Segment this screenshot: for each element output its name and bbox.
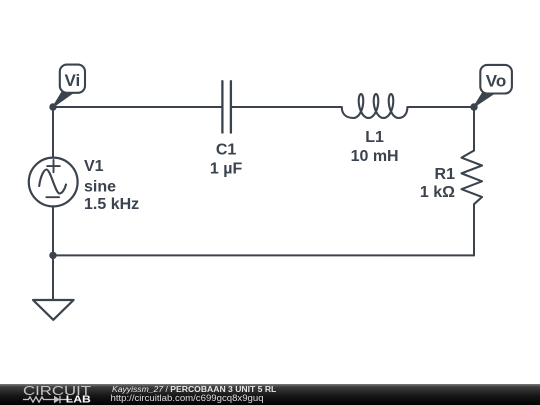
footer bar bbox=[0, 384, 540, 405]
svg-text:V1: V1 bbox=[84, 158, 104, 175]
svg-text:sine: sine bbox=[84, 178, 116, 195]
svg-text:C1: C1 bbox=[216, 142, 237, 159]
voltage source V1 circle bbox=[29, 158, 78, 207]
node Vo junction dot bbox=[470, 103, 477, 110]
wire from resistor R1 to bottom rail corner bbox=[473, 204, 475, 255]
svg-text:1 µF: 1 µF bbox=[210, 160, 243, 177]
wire from bottom node down to ground bbox=[52, 255, 54, 300]
CircuitLab logo bbox=[20, 383, 100, 405]
svg-text:R1: R1 bbox=[435, 166, 456, 183]
wire from node Vo down to resistor R1 bbox=[473, 107, 475, 151]
svg-text:10 mH: 10 mH bbox=[351, 148, 399, 165]
svg-text:1 kΩ: 1 kΩ bbox=[420, 184, 455, 201]
voltage source V1 minus sign bbox=[46, 196, 59, 198]
capacitor C1 bbox=[222, 81, 231, 132]
node Vo flag balloon bbox=[474, 65, 512, 107]
svg-text:LAB: LAB bbox=[66, 394, 91, 405]
wire from source V1 to bottom node bbox=[52, 207, 54, 256]
node Vi junction dot bbox=[49, 103, 56, 110]
node Vi flag balloon bbox=[53, 65, 85, 107]
node ground junction dot bbox=[49, 252, 56, 259]
credits text bbox=[111, 383, 113, 385]
wire top rail from node Vi to capacitor C1 left plate bbox=[53, 106, 222, 108]
resistor R1 zigzag bbox=[462, 151, 483, 205]
wire from node Vi down to source V1 bbox=[52, 107, 54, 157]
voltage source V1 sine wave bbox=[39, 170, 66, 194]
svg-text:1.5 kHz: 1.5 kHz bbox=[84, 196, 139, 213]
wire bottom rail bbox=[53, 254, 474, 256]
svg-text:L1: L1 bbox=[365, 129, 384, 146]
svg-text:Vo: Vo bbox=[486, 71, 506, 90]
voltage source V1 plus sign bbox=[47, 160, 60, 172]
ground symbol bbox=[33, 300, 74, 320]
wire from C1 to inductor L1, inductor L1 coil, wire from L1 to node Vo bbox=[231, 94, 474, 118]
svg-text:Vi: Vi bbox=[65, 71, 81, 90]
